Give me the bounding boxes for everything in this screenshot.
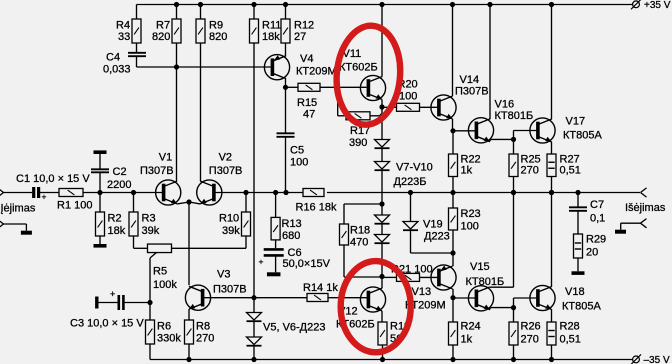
wire V5 top wire <box>253 298 255 313</box>
wire R9 to V2 collector <box>200 43 202 182</box>
wire R1 to V1 base <box>83 192 164 194</box>
capacitor C3 <box>119 295 124 310</box>
svg-text:680: 680 <box>282 230 300 242</box>
wire chain seg4 <box>381 204 383 215</box>
svg-text:C4: C4 <box>106 52 120 64</box>
resistor R29 <box>574 234 583 258</box>
wire R20 left stub <box>382 106 397 108</box>
svg-text:R5: R5 <box>153 266 167 278</box>
output ground <box>615 230 626 234</box>
wire R22 bottom <box>452 177 454 193</box>
node R25 rail node <box>511 190 516 195</box>
resistor R21 <box>397 273 420 281</box>
svg-text:V13: V13 <box>412 286 432 298</box>
svg-text:470: 470 <box>350 237 368 249</box>
wire R18 bottom wire <box>344 276 382 278</box>
resistor R17 <box>346 112 370 120</box>
node V13 emitter node <box>450 250 455 255</box>
svg-text:C7: C7 <box>590 199 604 211</box>
resistor R24 <box>449 322 458 345</box>
svg-text:П307В: П307В <box>213 284 247 296</box>
wire V17 collector up <box>551 5 553 120</box>
node V17 collector rail <box>549 2 554 7</box>
wire V15 base wire <box>453 297 476 299</box>
resistor R18 <box>340 224 349 245</box>
R2 ground <box>94 244 107 248</box>
wire V13 collector down <box>452 289 454 298</box>
svg-text:Įėjimas: Įėjimas <box>1 203 36 215</box>
wire V12 emitter down <box>381 311 383 322</box>
wire R17 left riser <box>337 87 339 116</box>
resistor R9 <box>196 19 205 43</box>
wire V4c to R15 <box>286 86 299 88</box>
svg-text:КТ209М: КТ209М <box>296 66 337 78</box>
svg-text:39k: 39k <box>222 225 240 237</box>
svg-text:R16 18k: R16 18k <box>296 201 337 213</box>
wire V17 emitter down <box>551 142 553 154</box>
resistor R28 <box>547 322 556 345</box>
svg-text:R24: R24 <box>461 320 481 332</box>
wire input wire <box>4 192 33 194</box>
resistor R6 <box>146 320 155 344</box>
node V6 rail node <box>251 357 256 362</box>
svg-text:Išėjimas: Išėjimas <box>625 202 666 214</box>
wire C5 top wire <box>285 87 287 133</box>
svg-text:Д223: Д223 <box>424 231 450 243</box>
wire V17 base wire <box>514 130 538 132</box>
wire R10 to R5 <box>172 247 247 249</box>
svg-text:C5: C5 <box>290 145 304 157</box>
svg-text:+: + <box>110 289 115 299</box>
wire C6 bottom wire <box>275 257 277 273</box>
wire V14 collector up <box>452 5 454 97</box>
svg-text:КТ602Б: КТ602Б <box>339 62 378 74</box>
wire R21 to V13 base <box>420 276 440 278</box>
svg-text:КТ801Б: КТ801Б <box>495 110 534 122</box>
node R24 rail node <box>450 357 455 362</box>
wire R18 top wire <box>344 203 382 205</box>
svg-text:50,0×15V: 50,0×15V <box>283 258 331 270</box>
svg-text:390: 390 <box>349 137 367 149</box>
wire R17 left stub <box>338 115 346 117</box>
C6 ground <box>267 272 281 276</box>
node R19 rail node <box>380 357 385 362</box>
svg-text:2200: 2200 <box>107 179 131 191</box>
svg-text:V4: V4 <box>300 53 313 65</box>
svg-text:V3: V3 <box>217 269 230 281</box>
capacitor C6 <box>264 249 284 255</box>
wire R9 top <box>200 5 202 20</box>
svg-text:18k: 18k <box>262 31 280 43</box>
wire V19 to V13e <box>411 252 454 254</box>
node C5 node <box>283 190 288 195</box>
node V19 node <box>408 190 413 195</box>
svg-text:0,51: 0,51 <box>560 165 581 177</box>
wire R11 top <box>253 5 255 20</box>
svg-text:–35 V: –35 V <box>644 355 670 364</box>
transistor V1 <box>156 180 181 205</box>
wire R2 bottom <box>99 236 101 244</box>
svg-text:V16: V16 <box>495 98 515 110</box>
capacitor C4 <box>128 53 146 56</box>
diode V8 <box>375 162 390 171</box>
wire V18 emitter down <box>551 309 553 322</box>
wire R25 top <box>513 139 515 154</box>
node V11 collector rail <box>379 2 384 7</box>
svg-text:V14: V14 <box>460 74 480 86</box>
highlight ellipse V12 <box>341 261 411 352</box>
resistor R3 <box>129 212 138 236</box>
wire V11 collector up <box>381 5 383 77</box>
svg-text:0,1: 0,1 <box>590 213 605 225</box>
wire V18 collector up <box>551 193 553 287</box>
capacitor C1 <box>34 187 39 198</box>
svg-text:КТ801Б: КТ801Б <box>466 276 505 288</box>
svg-text:C3 10,0 × 15 V: C3 10,0 × 15 V <box>70 318 144 330</box>
wire R3 to R5 <box>134 247 148 249</box>
wire R29 bottom <box>577 258 579 271</box>
resistor R20 <box>397 103 420 111</box>
svg-text:47: 47 <box>303 109 315 121</box>
transistor V2 <box>197 180 222 205</box>
svg-text:V15: V15 <box>470 261 490 273</box>
wire R8 bottom <box>188 344 190 360</box>
resistor R2 <box>96 212 105 236</box>
node C3 node <box>147 300 152 305</box>
input terminal <box>0 188 4 197</box>
svg-text:39k: 39k <box>142 225 160 237</box>
transistor V17 <box>530 118 555 143</box>
wire C2 bottom wire <box>99 172 101 192</box>
node R10 node <box>243 190 248 195</box>
svg-text:R26: R26 <box>521 320 541 332</box>
svg-text:R15: R15 <box>297 97 317 109</box>
svg-text:V1: V1 <box>159 152 172 164</box>
svg-text:270: 270 <box>196 333 214 345</box>
svg-text:R28: R28 <box>560 320 580 332</box>
node V4 collector node <box>283 85 288 90</box>
wire V2 base wire <box>214 192 303 194</box>
wire R10 bottom <box>245 236 247 248</box>
wire R24 top <box>452 298 454 322</box>
diode V9 <box>375 215 390 224</box>
node R2 node <box>97 190 102 195</box>
wire C7-R29 wire <box>577 212 579 234</box>
resistor R4 <box>132 19 141 43</box>
wire chain seg6 <box>381 243 383 276</box>
node C4-R7 junction <box>174 64 179 69</box>
wire R13-C6 wire <box>275 240 277 248</box>
svg-text:20: 20 <box>586 247 598 259</box>
wire R14 to V12 base <box>328 297 368 299</box>
node R11 rail <box>251 2 256 7</box>
node R27 rail node <box>549 190 554 195</box>
wire C4 to V4 base <box>137 66 271 68</box>
svg-text:100k: 100k <box>153 279 177 291</box>
wire +35V rail <box>137 4 633 6</box>
wire R4 top <box>136 5 138 20</box>
svg-text:R8: R8 <box>196 320 210 332</box>
wire R23 bottom <box>452 230 454 253</box>
svg-text:V19: V19 <box>423 219 443 231</box>
svg-text:R18: R18 <box>350 225 370 237</box>
transistor V12 <box>360 287 385 312</box>
wire V14e to V16 base <box>453 130 476 132</box>
svg-text:П307В: П307В <box>209 165 243 177</box>
resistor R13 <box>271 217 280 240</box>
node C7 node <box>575 190 580 195</box>
wire R21 left stub <box>382 276 397 278</box>
wire R19 bottom <box>382 345 384 360</box>
svg-text:270: 270 <box>521 333 539 345</box>
svg-text:R10: R10 <box>219 212 239 224</box>
svg-text:R11: R11 <box>262 20 281 32</box>
svg-text:R4: R4 <box>116 20 130 32</box>
node R22 rail node <box>450 190 455 195</box>
wire C7 top wire <box>577 193 579 208</box>
svg-text:R29: R29 <box>586 234 606 246</box>
wire V11 emitter down <box>381 99 383 107</box>
transistor V16 <box>468 118 493 143</box>
R5 wiper <box>150 253 157 259</box>
node R8 rail node <box>186 357 191 362</box>
transistor V3 <box>185 285 210 310</box>
svg-text:V7-V10: V7-V10 <box>396 162 433 174</box>
wire R12 to V4 emitter <box>285 43 287 56</box>
transistor V15 <box>468 286 493 311</box>
node R17-emitter node <box>379 113 384 118</box>
wire chain seg1 <box>381 107 383 140</box>
potentiometer R5 <box>148 244 172 253</box>
transistor V4 <box>264 55 289 80</box>
wire C3 right wire <box>125 302 150 304</box>
wire V3 emitter down <box>188 309 190 320</box>
wire V17 base riser <box>513 131 515 140</box>
svg-text:Д223Б: Д223Б <box>394 176 427 188</box>
wire V16e to node <box>490 138 514 140</box>
wire R27 bottom <box>551 177 553 193</box>
transistor V13 <box>431 265 456 290</box>
wire R10 top <box>245 193 247 213</box>
svg-text:+: + <box>259 257 264 267</box>
node V15 emitter node <box>511 305 516 310</box>
wire input gnd wire <box>4 223 27 225</box>
wire R11 to V3 base node <box>253 43 255 298</box>
wire R20 to V14 base <box>420 106 440 108</box>
wire V14 emitter down <box>452 119 454 131</box>
diode V6 <box>247 337 262 346</box>
C2 ground <box>94 150 107 154</box>
resistor R14 <box>307 294 328 302</box>
node R26 rail node <box>511 357 516 362</box>
node R12 rail <box>283 2 288 7</box>
diode V10 <box>375 235 390 244</box>
wire -35V rail <box>150 359 633 361</box>
svg-text:R7: R7 <box>156 20 170 32</box>
wire R4-C4 <box>136 43 138 52</box>
diode V7 <box>375 140 390 149</box>
resistor R22 <box>449 154 458 177</box>
svg-text:1k: 1k <box>461 333 473 345</box>
wire R26 top <box>513 308 515 322</box>
wire V5-V6 wire <box>253 321 255 337</box>
wire chain seg3 <box>381 170 383 204</box>
svg-text:C2: C2 <box>113 166 127 178</box>
node V16 emitter node <box>511 137 516 142</box>
svg-text:R6: R6 <box>157 320 171 332</box>
svg-text:100: 100 <box>399 91 417 103</box>
svg-text:820: 820 <box>209 31 227 43</box>
transistor V18 <box>530 285 555 310</box>
wire emitters to V3 <box>188 202 190 285</box>
svg-text:R14 1k: R14 1k <box>303 282 338 294</box>
C3 ground bar <box>95 297 98 309</box>
svg-text:C1 10,0 × 15 V: C1 10,0 × 15 V <box>16 173 90 185</box>
svg-text:R2: R2 <box>108 212 122 224</box>
svg-text:820: 820 <box>152 31 170 43</box>
wire V13 emitter up <box>452 253 454 266</box>
wire output gnd drop <box>620 223 622 230</box>
wire C1 to R1 <box>40 192 59 194</box>
wire R23 top <box>452 193 454 209</box>
svg-text:R12: R12 <box>294 20 314 32</box>
wire R3 bottom <box>133 236 135 248</box>
wire V15 collector wire <box>490 286 514 288</box>
node V12 collector node <box>379 274 384 279</box>
svg-text:R13: R13 <box>282 218 302 230</box>
node R3 node <box>131 190 136 195</box>
node V16 collector rail <box>487 2 492 7</box>
wire V18 base wire <box>514 297 538 299</box>
resistor R11 <box>250 19 259 43</box>
wire chain seg2 <box>381 148 383 161</box>
node R28 rail node <box>549 357 554 362</box>
wire R12 top <box>285 5 287 20</box>
svg-text:V2: V2 <box>219 152 232 164</box>
wire R13 top <box>275 193 277 218</box>
resistor R23 <box>449 208 458 230</box>
+35V terminal <box>631 0 641 9</box>
resistor R19 <box>378 322 387 345</box>
resistor R8 <box>185 320 194 344</box>
svg-text:R23: R23 <box>461 208 481 220</box>
wire R2 top <box>99 193 101 213</box>
input gnd terminal <box>0 219 4 228</box>
resistor R1 <box>59 189 83 197</box>
wire R15 to V11 base <box>320 86 367 88</box>
wire R7 top <box>176 5 178 20</box>
svg-text:КТ805А: КТ805А <box>563 130 602 142</box>
output gnd terminal <box>641 219 647 228</box>
svg-text:+35 V: +35 V <box>644 0 671 11</box>
wire C2 top wire <box>99 154 101 170</box>
transistor V14 <box>431 95 456 120</box>
wire R22 top <box>452 131 454 154</box>
wire R3 top <box>133 193 135 213</box>
svg-text:0,033: 0,033 <box>103 64 131 76</box>
wire R25 bottom <box>513 177 515 193</box>
output terminal <box>641 188 647 197</box>
transistor V11 <box>360 75 385 100</box>
resistor R25 <box>509 154 518 177</box>
capacitor C5 <box>277 133 295 137</box>
resistor R26 <box>509 322 518 345</box>
resistor R16 <box>303 189 324 197</box>
svg-text:R9: R9 <box>209 20 223 32</box>
wire V19 bottom wire <box>410 230 412 253</box>
svg-text:П307В: П307В <box>140 165 174 177</box>
node V15 collector rail <box>511 190 516 195</box>
diode V19 <box>403 222 418 231</box>
node V14 emitter node <box>450 128 455 133</box>
capacitor C2 <box>91 169 109 172</box>
wire V1 emitter wire <box>177 202 189 204</box>
wire R26 bottom <box>513 345 515 360</box>
node V3 base node <box>251 295 256 300</box>
wire V6 bottom wire <box>253 346 255 360</box>
wire V15 emitter wire <box>489 308 491 310</box>
-35V terminal <box>631 354 641 364</box>
svg-text:100: 100 <box>461 221 479 233</box>
wire chain seg5 <box>381 224 383 235</box>
node R7 rail <box>174 2 179 7</box>
wire V19 top wire <box>410 193 412 222</box>
wire R14 left wire <box>254 297 307 299</box>
svg-text:1k: 1k <box>461 165 473 177</box>
svg-text:330k: 330k <box>157 333 181 345</box>
svg-text:R1 100: R1 100 <box>57 200 92 212</box>
resistor R7 <box>172 19 181 43</box>
node V18 collector rail <box>549 190 554 195</box>
wire V2 emitter wire <box>189 202 200 204</box>
svg-text:R3: R3 <box>142 212 156 224</box>
wire V16 emitter wire <box>489 139 491 141</box>
node R9 rail <box>198 2 203 7</box>
wire mid rail right <box>327 192 640 194</box>
wire R28 bottom <box>551 345 553 360</box>
svg-text:18k: 18k <box>108 225 126 237</box>
resistor R27 <box>547 154 556 177</box>
wire V15e to node <box>490 307 514 309</box>
wire R5 wiper down <box>149 258 151 320</box>
svg-text:КТ805А: КТ805А <box>562 301 601 313</box>
svg-text:33: 33 <box>118 31 130 43</box>
wire input gnd drop <box>25 224 27 231</box>
svg-text:27: 27 <box>294 31 306 43</box>
node emitter junction <box>186 199 191 204</box>
diode V5 <box>247 313 262 322</box>
wire R18 bottom riser <box>343 245 345 277</box>
resistor R10 <box>242 212 251 236</box>
node V13 collector node <box>450 295 455 300</box>
svg-text:П307В: П307В <box>455 86 489 98</box>
svg-text:0,51: 0,51 <box>560 333 581 345</box>
wire R17 right stub <box>370 115 382 117</box>
wire V18 base riser <box>513 298 515 308</box>
R29 ground <box>572 271 585 275</box>
wire output gnd wire <box>621 222 641 224</box>
wire C4 down <box>136 56 138 67</box>
capacitor C7 <box>569 207 587 211</box>
wire V12 collector up <box>381 277 383 289</box>
wire R6 bottom <box>149 344 151 360</box>
highlight ellipse V11 <box>333 23 405 127</box>
svg-text:100: 100 <box>290 157 308 169</box>
node chain-R18 node <box>379 201 384 206</box>
svg-text:V17: V17 <box>566 116 586 128</box>
svg-text:270: 270 <box>521 165 539 177</box>
resistor R12 <box>281 19 290 43</box>
